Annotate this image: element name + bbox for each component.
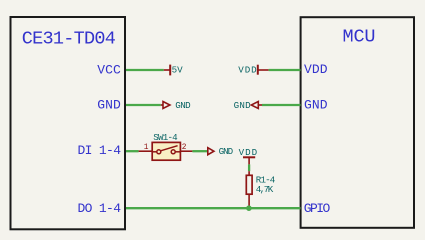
svg-text:4,7K: 4,7K bbox=[256, 184, 274, 195]
svg-text:GND: GND bbox=[234, 100, 251, 111]
ground symbol pin (MCU) bbox=[258, 104, 262, 106]
ground symbol pin (left) bbox=[161, 104, 163, 106]
power symbol 5V bar bbox=[169, 65, 171, 76]
svg-text:SW1-4: SW1-4 bbox=[153, 132, 178, 143]
ground symbol arrow (MCU) bbox=[251, 102, 258, 109]
svg-text:GND: GND bbox=[175, 100, 191, 111]
switch SW1-4 contact circle left bbox=[157, 150, 161, 154]
svg-text:VCC: VCC bbox=[97, 63, 121, 78]
switch SW1-4 pin 2 lead bbox=[180, 150, 192, 152]
wire GND (left) bbox=[126, 104, 161, 106]
power symbol VDD pin (MCU) bbox=[258, 69, 269, 71]
switch SW1-4 contact circle right bbox=[171, 150, 175, 154]
switch SW1-4 internal stub left bbox=[152, 151, 157, 153]
switch SW1-4 lever bbox=[161, 146, 178, 151]
svg-text:GND: GND bbox=[97, 98, 121, 113]
wire VCC to 5V bbox=[126, 69, 164, 71]
svg-text:DO 1-4: DO 1-4 bbox=[78, 201, 122, 216]
switch SW1-4 internal stub right bbox=[175, 151, 180, 153]
power symbol VDD bar (MCU) bbox=[257, 65, 259, 75]
component U1 CE31-TD04 body bbox=[11, 17, 126, 229]
svg-text:GND: GND bbox=[219, 146, 234, 157]
component U2 MCU body bbox=[301, 17, 414, 228]
wire DO 1-4 to GPIO bbox=[126, 207, 301, 209]
svg-text:1: 1 bbox=[144, 143, 149, 152]
junction dot (R1-4 / DO net) bbox=[246, 205, 252, 211]
svg-text:5V: 5V bbox=[172, 65, 184, 76]
svg-text:MCU: MCU bbox=[343, 27, 376, 48]
wire VDD to MCU bbox=[269, 69, 301, 71]
svg-text:GND: GND bbox=[304, 97, 328, 112]
wire GND to MCU bbox=[262, 104, 301, 106]
svg-text:VDD: VDD bbox=[238, 64, 257, 75]
svg-text:DI 1-4: DI 1-4 bbox=[78, 143, 122, 158]
resistor R1-4 body bbox=[246, 175, 252, 194]
power symbol VDD pin (pull-up) bbox=[248, 157, 250, 164]
wire SW1-4 to GND bbox=[192, 150, 207, 152]
resistor R1-4 bottom lead bbox=[248, 194, 250, 206]
wire DI to SW1-4 bbox=[126, 150, 139, 152]
power symbol 5V pin bbox=[164, 69, 170, 71]
resistor R1-4 top lead bbox=[248, 171, 250, 175]
wire VDD to R1-4 bbox=[248, 164, 250, 171]
svg-text:VDD: VDD bbox=[304, 62, 328, 77]
switch SW1-4 pin 1 lead bbox=[139, 150, 153, 152]
ground symbol arrow (left) bbox=[163, 102, 170, 109]
svg-text:2: 2 bbox=[182, 143, 187, 152]
svg-text:CE31-TD04: CE31-TD04 bbox=[22, 28, 116, 49]
ground symbol arrow (switch) bbox=[208, 148, 214, 155]
svg-text:GPIO: GPIO bbox=[304, 201, 331, 216]
power symbol VDD bar (pull-up) bbox=[243, 156, 255, 158]
switch SW1-4 body bbox=[152, 142, 180, 160]
